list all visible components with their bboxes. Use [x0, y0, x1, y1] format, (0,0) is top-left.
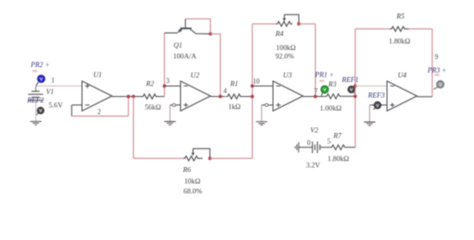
probe PR1 pointer [321, 93, 322, 96]
svg-text:5: 5 [327, 139, 331, 146]
junction R3/R7 [354, 95, 357, 98]
probe REF3 [374, 102, 381, 109]
ground below U2 [164, 122, 175, 125]
resistor R7 [330, 145, 345, 150]
resistor R2 [142, 94, 161, 99]
junction node 4 [219, 95, 222, 98]
R4 wiper [283, 15, 285, 19]
resistor R3 [325, 94, 342, 99]
svg-text:10: 10 [253, 78, 260, 85]
op-amp U1 [82, 81, 112, 111]
svg-text:U1: U1 [93, 71, 102, 79]
wire V1 neg to ground [35, 100, 37, 121]
wire U4 + to ground [370, 104, 387, 106]
ground below U3 [256, 122, 267, 125]
svg-text:V1: V1 [46, 88, 54, 96]
junction R6 wiper [208, 157, 211, 160]
op-amp U3 [273, 81, 303, 111]
wire U2 out [211, 96, 226, 98]
op-amp U2 [181, 81, 211, 111]
svg-text:U2: U2 [191, 71, 200, 79]
wire U1 - feedback stub [72, 104, 82, 106]
wire Q1 base loop [185, 19, 210, 34]
svg-text:100A/A: 100A/A [173, 53, 197, 61]
svg-text:1.80kΩ: 1.80kΩ [328, 155, 350, 163]
svg-text:100kΩ: 100kΩ [276, 44, 296, 52]
wire R4 to U3 out [314, 24, 316, 97]
junction R4 wiper [297, 22, 300, 25]
svg-text:5.6V: 5.6V [49, 102, 64, 110]
wire net 1 to U1 + [36, 85, 82, 87]
svg-text:0: 0 [307, 140, 311, 147]
svg-text:R2: R2 [145, 80, 154, 88]
wire R4 right [299, 23, 316, 25]
wire R5 left [355, 28, 390, 30]
svg-text:56kΩ: 56kΩ [145, 103, 161, 111]
wire V2 to R7 [320, 146, 330, 148]
svg-text:92.0%: 92.0% [275, 53, 294, 61]
svg-text:U4: U4 [398, 72, 407, 80]
junction Q1 base-collector [209, 32, 212, 35]
svg-text:1.80kΩ: 1.80kΩ [389, 37, 411, 45]
ground below U4 [364, 122, 375, 125]
wire U1 feedback bottom [72, 115, 129, 117]
wire rail to R6 [133, 157, 183, 159]
svg-text:1kΩ: 1kΩ [228, 103, 241, 111]
svg-text:7: 7 [314, 89, 318, 96]
wire node 3 to U2 - [164, 85, 180, 87]
probe PR3 [437, 81, 444, 88]
probe REF1 pointer [354, 92, 355, 94]
wire R4 left [252, 23, 276, 25]
junction R6 tap [132, 95, 135, 98]
wire summing column [354, 29, 356, 147]
svg-text:Q1: Q1 [174, 41, 183, 49]
svg-text:R1: R1 [229, 80, 238, 88]
probe REF3 pointer [374, 108, 376, 110]
R6 wiper [192, 149, 194, 154]
probe REF2 [37, 107, 44, 114]
svg-text:10kΩ: 10kΩ [184, 178, 200, 186]
wire R7 to summing column [345, 146, 356, 148]
junction node 3 [163, 84, 166, 87]
potentiometer R6 [183, 156, 202, 161]
svg-text:3.2V: 3.2V [306, 162, 321, 170]
wire R1 to node 10 [243, 96, 252, 98]
junction U4 - node [354, 84, 357, 87]
probe PR2 pointer [36, 82, 38, 85]
svg-text:PR1: PR1 [319, 79, 326, 83]
svg-text:4: 4 [223, 88, 227, 95]
wire R5 right [409, 28, 432, 30]
junction node 10 lower [251, 95, 254, 98]
ground left of V2 [295, 142, 298, 152]
svg-text:3: 3 [166, 78, 170, 85]
wire R4 wiper loop [284, 15, 299, 24]
wire U1 feedback riser [127, 97, 129, 117]
potentiometer R4 [276, 22, 293, 27]
svg-text:9: 9 [435, 54, 439, 61]
wire node 10 column [251, 24, 253, 159]
wire R3 to summing node [342, 95, 355, 97]
ground below V1 [30, 121, 41, 124]
wire R2 to node 3 riser [160, 96, 164, 98]
battery V2 [311, 142, 313, 154]
wire U2 + to ground [170, 104, 181, 106]
svg-text:PR1 +: PR1 + [314, 71, 334, 79]
probe PR1 [321, 86, 329, 94]
svg-text:PR2: PR2 [32, 69, 39, 73]
wire V1 top stub [35, 86, 37, 91]
probe PR2 [38, 75, 45, 82]
probe PR3 pointer [434, 87, 438, 89]
svg-text:REF1: REF1 [341, 76, 359, 84]
wire R6 wiper loop [193, 149, 210, 159]
op-amp U4 [387, 81, 417, 111]
wire ground to V2 [299, 146, 313, 148]
svg-text:REF3: REF3 [367, 92, 385, 100]
svg-text:R4: R4 [275, 30, 284, 38]
junction node 7 [314, 95, 317, 98]
wire R6 to node 10 column [210, 157, 252, 159]
pin circle U3 + [265, 104, 268, 107]
junction U1 feedback [127, 95, 130, 98]
svg-text:PR3: PR3 [434, 73, 441, 77]
probe REF1 [348, 86, 355, 93]
svg-text:2: 2 [98, 109, 102, 116]
battery V1 [32, 90, 40, 92]
svg-text:V2: V2 [310, 126, 318, 134]
svg-text:1: 1 [51, 78, 54, 85]
pin circle U2 + [173, 104, 176, 107]
wire U1 out to R2 [112, 96, 142, 98]
wire U4 out [417, 96, 432, 98]
junction node 10 upper [251, 84, 254, 87]
transistor Q1 [180, 27, 191, 29]
wire to U4 - [355, 85, 387, 87]
svg-text:R7: R7 [333, 132, 342, 140]
svg-text:68.0%: 68.0% [184, 187, 203, 195]
wire node 10 to U3 - [252, 85, 273, 87]
svg-text:1.00kΩ: 1.00kΩ [320, 103, 342, 112]
wire down to R6 rail [132, 97, 134, 159]
svg-text:R5: R5 [396, 13, 405, 21]
wire R5 to U4 out [431, 29, 433, 97]
resistor R1 [226, 94, 243, 99]
svg-text:U3: U3 [283, 71, 292, 79]
wire Q1 to U2 output [210, 34, 220, 97]
wire U3 out to R3 [303, 96, 325, 98]
resistor R5 [390, 27, 409, 32]
wire U3 + to ground [262, 104, 273, 106]
wire node 3 riser to Q1 [163, 33, 165, 97]
probe REF2 pointer [37, 113, 39, 115]
svg-text:R3: R3 [327, 81, 336, 89]
svg-text:R6: R6 [182, 166, 191, 174]
